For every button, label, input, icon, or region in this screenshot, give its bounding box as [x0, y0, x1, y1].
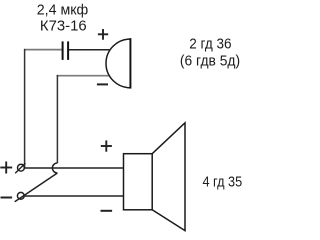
- vertical riser wire from hop to speaker BA1 minus wire: [56, 75, 58, 163]
- plus wire from terminal X1 to speaker BA2: [24, 167, 123, 169]
- svg-text:К73-16: К73-16: [40, 19, 87, 35]
- minus input terminal X2 circle: [17, 192, 24, 199]
- diagonal wire from hop through minus terminal: [15, 173, 58, 202]
- minus label at speaker BA1: [97, 83, 108, 85]
- crossing hop arc: [52, 163, 57, 173]
- wire from capacitor corner to left plate: [24, 49, 62, 51]
- wire from capacitor right plate to speaker BA1 plus: [69, 49, 110, 51]
- plus label at input: [0, 162, 12, 174]
- svg-text:(6 гдв 5д): (6 гдв 5д): [180, 54, 240, 70]
- svg-text:4 гд 35: 4 гд 35: [202, 174, 242, 190]
- wire from vertical riser to speaker BA1 minus: [57, 75, 110, 77]
- left vertical wire from capacitor to plus terminal: [24, 49, 26, 168]
- minus label at speaker BA2: [101, 210, 113, 212]
- speaker BA2 (4 гд 35) magnet rectangle: [124, 154, 153, 210]
- plus label at speaker BA2: [101, 140, 112, 151]
- speaker BA2 horn diffuser: [152, 123, 185, 231]
- svg-text:2,4 мкф: 2,4 мкф: [37, 3, 89, 19]
- plus input terminal X1: [15, 163, 25, 173]
- minus wire from terminal X2 to speaker BA2: [24, 195, 123, 197]
- minus label at input: [1, 197, 13, 199]
- capacitor C1 plates: [63, 41, 69, 60]
- speaker BA1 (2 гд 36) head symbol: [106, 38, 130, 88]
- svg-text:2 гд 36: 2 гд 36: [189, 36, 231, 52]
- plus label at speaker BA1: [98, 29, 108, 40]
